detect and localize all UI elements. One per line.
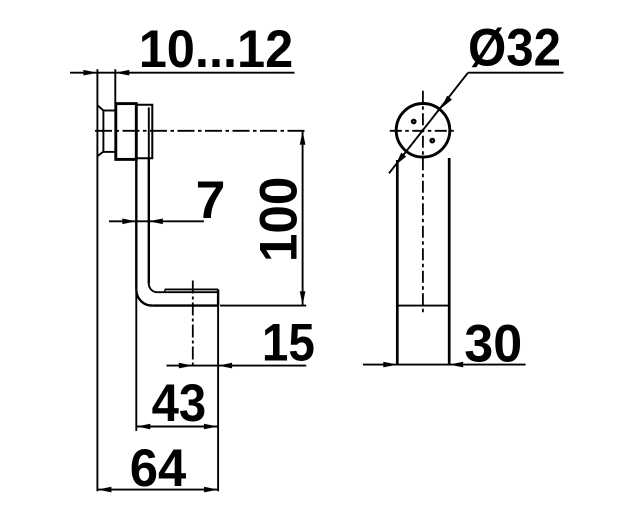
tab inner line / plate right face upper	[148, 107, 150, 158]
svg-text:15: 15	[262, 314, 315, 373]
arrow left of 30	[383, 362, 397, 368]
arm end face	[217, 289, 219, 305]
svg-text:Ø32: Ø32	[468, 18, 561, 77]
arrow right of 15	[218, 363, 232, 369]
flange inner vertical	[102, 110, 104, 153]
arrow right of 64	[204, 487, 218, 493]
arm bottom face	[152, 304, 218, 306]
dimension 30 line	[363, 364, 526, 366]
leader arrow on circle	[441, 96, 452, 109]
arrow left of 64	[97, 487, 111, 493]
svg-text:30: 30	[464, 315, 522, 374]
rod seam line	[397, 305, 449, 307]
rod right silhouette	[448, 158, 451, 365]
hole centerline in arm	[192, 281, 194, 369]
rod left silhouette	[396, 160, 399, 365]
dimension 15 line	[167, 365, 307, 367]
arrow left of 15	[179, 363, 193, 369]
pad top line	[165, 288, 218, 290]
arrow bottom of 100	[300, 291, 306, 305]
arm top face	[157, 291, 218, 293]
extension line left face of arm	[135, 293, 137, 431]
svg-text:7: 7	[196, 171, 226, 230]
svg-text:43: 43	[152, 374, 207, 433]
circle vertical centerline	[422, 91, 424, 314]
extension line right end of arm	[217, 306, 219, 492]
pad left step	[164, 289, 166, 292]
flange chamfer bottom	[97, 152, 103, 157]
hole lower right	[431, 139, 434, 142]
neck top face	[103, 110, 115, 112]
arrow top of 100	[300, 131, 306, 145]
arrow left of 10...12	[83, 70, 97, 76]
dimension 64 line	[97, 489, 218, 491]
dimension 10...12 line	[70, 72, 295, 74]
arrow right of 10...12	[115, 70, 129, 76]
arrow right of 7	[149, 219, 163, 225]
svg-text:64: 64	[130, 439, 187, 498]
leader underline of diameter 32	[468, 72, 564, 74]
inner bend radius	[149, 284, 157, 292]
rod end circle	[396, 104, 450, 158]
collar rectangle (thick outline)	[116, 104, 137, 160]
extension line right of 10...12	[114, 69, 116, 103]
arrow right of 30	[449, 362, 463, 368]
left long extension line / flange left face	[96, 69, 98, 491]
plate right face (vertical arm right edge)	[148, 158, 150, 283]
plate left face (vertical arm left edge)	[135, 159, 137, 289]
dimension 100 line	[302, 131, 304, 305]
arrow left of 43	[136, 424, 150, 430]
boss tab outline	[136, 105, 152, 159]
neck bottom face	[103, 151, 115, 153]
flange chamfer top	[97, 105, 103, 110]
leader diagonal of diameter 32	[389, 73, 468, 174]
outer bend radius	[136, 290, 152, 306]
arrow right of 43	[204, 424, 218, 430]
arrow left of 7	[122, 219, 136, 225]
svg-text:10...12: 10...12	[139, 20, 294, 79]
dimension 7 line	[109, 220, 204, 222]
svg-text:100: 100	[250, 177, 309, 263]
extension line bottom of 100	[220, 305, 306, 307]
hole upper left	[412, 120, 415, 123]
dimension 43 line	[136, 426, 218, 428]
circle horizontal centerline	[390, 130, 455, 132]
leader arrow on rod edge	[395, 153, 406, 166]
horizontal centerline of boss	[95, 130, 306, 132]
